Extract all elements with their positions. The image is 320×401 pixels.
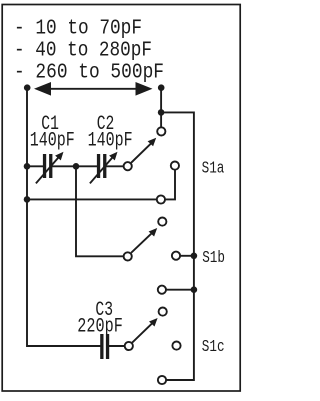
wire right vertical (to S1a pole)	[160, 88, 162, 127]
node left rail top	[24, 84, 31, 91]
dimension arrow shaft	[48, 88, 138, 90]
switch S1c pole contact	[159, 308, 167, 316]
switch S1a right contact	[171, 162, 179, 170]
node C1-C2 junction	[73, 163, 80, 170]
wire S1b lower contact to bus	[167, 289, 194, 291]
capacitor C2 arrow	[91, 158, 113, 183]
svg-text:- 260 to 500pF: - 260 to 500pF	[14, 61, 164, 85]
switch S1c right contact	[172, 342, 180, 350]
node left rail / cap row	[24, 163, 31, 170]
capacitor C2 plates	[97, 154, 107, 178]
wire left rail	[27, 88, 100, 346]
dimension arrowhead left	[34, 82, 51, 96]
switch S1b right contact	[172, 252, 180, 260]
switch S1b wiper arrow	[132, 234, 152, 253]
capacitor C1 plates	[43, 154, 52, 178]
wire S1b right contact to bus	[181, 255, 194, 257]
switch S1a lower contact (row2)	[157, 195, 165, 203]
wire second row (left rail to S1a strapped contacts)	[27, 171, 175, 200]
svg-text:- 40 to 280pF: - 40 to 280pF	[14, 39, 152, 63]
node bus branch	[158, 109, 165, 116]
svg-text:S1a: S1a	[202, 158, 225, 177]
switch S1a pole contact	[157, 127, 165, 135]
node right rail top	[158, 84, 165, 91]
svg-text:S1c: S1c	[202, 337, 225, 356]
svg-text:- 10 to 70pF: - 10 to 70pF	[14, 17, 142, 41]
svg-text:140pF: 140pF	[88, 129, 133, 152]
wire C3 right to S1c contact	[109, 345, 123, 347]
switch S1c throw contact (from C3)	[125, 342, 133, 350]
dimension arrowhead right	[136, 82, 153, 96]
svg-text:S1b: S1b	[202, 248, 225, 267]
switch S1c bottom contact	[158, 376, 166, 384]
wire capacitor row	[27, 165, 123, 167]
svg-text:140pF: 140pF	[30, 129, 75, 152]
switch S1a wiper arrow	[132, 144, 151, 163]
node left rail / second row	[24, 196, 31, 203]
switch S1b pole contact	[158, 218, 166, 226]
switch S1b lower contact	[158, 286, 166, 294]
wire C1-C2 junction down to S1b	[76, 166, 123, 256]
node bus / S1b right	[191, 253, 198, 260]
switch S1c wiper arrow	[133, 324, 152, 342]
switch S1a throw contact (cap row)	[124, 162, 132, 170]
wire bus	[161, 112, 194, 380]
svg-text:220pF: 220pF	[77, 315, 123, 338]
capacitor C1 arrow	[37, 158, 59, 183]
node bus / S1b lower	[191, 286, 198, 293]
switch S1b throw contact (from caps)	[124, 252, 132, 260]
capacitor C3 plates	[100, 334, 109, 359]
border frame	[2, 5, 240, 392]
